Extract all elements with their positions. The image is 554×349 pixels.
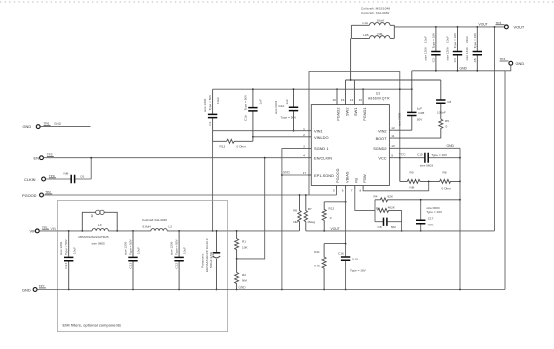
svg-text:10uF: 10uF <box>137 247 141 254</box>
svg-text:15: 15 <box>341 98 345 102</box>
svg-text:C5: C5 <box>473 58 477 62</box>
svg-text:NM: NM <box>391 225 396 229</box>
svg-text:SGND 1: SGND 1 <box>314 146 329 151</box>
svg-text:GND: GND <box>283 171 291 175</box>
svg-text:GND: GND <box>460 67 468 71</box>
svg-text:C3: C3 <box>431 58 435 62</box>
wire VOUT right riser <box>494 27 496 231</box>
wire VOUT bottom rail <box>306 230 495 232</box>
svg-text:FB: FB <box>353 178 358 183</box>
resistor R7 <box>304 194 315 231</box>
svg-text:VIN2: VIN2 <box>378 128 387 133</box>
capacitor C8 boot <box>436 80 451 119</box>
svg-text:Type = 50V: Type = 50V <box>64 238 68 255</box>
svg-text:VOUT: VOUT <box>479 23 488 27</box>
wire PGND2 riser <box>336 89 338 104</box>
svg-text:5: 5 <box>333 188 335 192</box>
svg-text:10uF: 10uF <box>445 36 449 43</box>
svg-text:Type = 16V: Type = 16V <box>453 32 457 49</box>
svg-text:NM: NM <box>410 186 415 190</box>
resistor R13 <box>213 131 253 149</box>
svg-text:size 1210: size 1210 <box>465 47 469 61</box>
test point TP6 GND <box>23 122 91 130</box>
svg-text:size 0805: size 0805 <box>92 241 106 245</box>
test point TP2 PGOOD <box>22 190 52 198</box>
svg-text:size 1206: size 1206 <box>59 241 63 255</box>
capacitor C4 <box>445 26 462 72</box>
svg-text:EN/CLKIN: EN/CLKIN <box>314 155 332 160</box>
inductor L1B <box>351 25 394 38</box>
svg-text:C2B: C2B <box>418 111 424 115</box>
svg-text:NM: NM <box>242 279 247 283</box>
wire FSW to R8/R9 junction <box>363 181 429 190</box>
capacitor C6 <box>46 172 91 184</box>
test point TP9 CLKIN <box>24 174 56 182</box>
svg-text:PGND1: PGND1 <box>362 108 367 121</box>
capacitor C1b <box>244 88 263 141</box>
svg-text:11: 11 <box>391 134 394 138</box>
op-amp U1 regulator IC box <box>311 92 390 186</box>
svg-text:NM: NM <box>293 220 298 224</box>
resistor R12 <box>322 201 346 232</box>
svg-text:C6: C6 <box>80 175 84 179</box>
svg-text:12: 12 <box>391 126 395 130</box>
svg-text:n.m.: n.m. <box>314 264 320 268</box>
svg-text:17: 17 <box>303 171 307 175</box>
svg-text:EP1-SGND: EP1-SGND <box>314 173 334 178</box>
svg-text:R2: R2 <box>242 273 246 277</box>
svg-text:Type = 50V: Type = 50V <box>174 238 178 255</box>
svg-text:PGND2: PGND2 <box>336 108 341 121</box>
svg-text:R11: R11 <box>314 250 320 254</box>
svg-text:VOUT: VOUT <box>331 227 340 231</box>
svg-text:50V: 50V <box>417 117 423 121</box>
wire VCC drop <box>399 158 401 182</box>
svg-text:82K: 82K <box>388 195 394 199</box>
capacitor C1 <box>203 89 220 131</box>
wire EN divider jog <box>237 158 265 259</box>
capacitor C2B <box>398 71 425 130</box>
svg-text:1Meg: 1Meg <box>307 220 315 224</box>
svg-text:R12: R12 <box>329 206 335 210</box>
svg-text:A8660KQTR: A8660KQTR <box>368 97 390 101</box>
svg-text:2: 2 <box>303 133 305 137</box>
svg-text:10uF: 10uF <box>424 36 428 43</box>
page border top <box>0 1 554 3</box>
capacitor C14 <box>59 230 76 290</box>
resistor R11 <box>314 243 346 291</box>
svg-text:9: 9 <box>391 153 393 157</box>
svg-text:PGOOD: PGOOD <box>335 168 340 183</box>
svg-text:0: 0 <box>330 216 332 220</box>
svg-text:VCC: VCC <box>378 155 386 160</box>
wire SW node to L1 <box>350 38 352 80</box>
svg-text:size 1206: size 1206 <box>445 47 449 61</box>
test point TP7 GND bottom <box>22 284 46 292</box>
wire PGND loop <box>309 72 400 196</box>
svg-text:C17: C17 <box>428 217 434 221</box>
svg-text:GND: GND <box>54 122 62 126</box>
test point TP1 VIN <box>30 225 57 233</box>
wire FB branch vertical <box>374 200 376 222</box>
svg-text:402K: 402K <box>388 206 396 210</box>
resistor R8 <box>429 171 461 191</box>
svg-text:BOOT: BOOT <box>376 136 388 141</box>
wire VBIAS vertical <box>345 189 347 257</box>
capacitor C5 <box>465 26 482 72</box>
svg-text:0: 0 <box>446 124 448 128</box>
wire PGND1 riser <box>362 89 364 104</box>
svg-text:FSW: FSW <box>362 174 367 183</box>
svg-text:C1b: C1b <box>244 115 248 121</box>
svg-text:6: 6 <box>342 188 344 192</box>
svg-text:C14: C14 <box>64 263 68 269</box>
resistor R9 <box>400 171 429 190</box>
svg-text:Type = 16V: Type = 16V <box>350 268 367 272</box>
svg-text:CLKIN: CLKIN <box>24 177 36 182</box>
wire SGND1 <box>282 149 308 290</box>
svg-text:3: 3 <box>303 145 305 149</box>
wire GND drop to bottom rail <box>504 71 506 290</box>
wire SGND2 to GND <box>393 147 460 149</box>
svg-text:Type = 50V: Type = 50V <box>128 238 132 255</box>
capacitor C8 feedback <box>375 218 402 229</box>
resistor R4 <box>374 195 461 202</box>
svg-text:Coilcraft XAL4030: Coilcraft XAL4030 <box>142 218 167 222</box>
svg-text:GND: GND <box>22 287 31 292</box>
svg-text:VBIAS: VBIAS <box>344 171 349 183</box>
svg-text:n.m.: n.m. <box>428 223 434 227</box>
svg-text:C11: C11 <box>211 252 215 258</box>
svg-text:22uF: 22uF <box>465 36 469 43</box>
wire EP1-SGND with GND label <box>282 174 308 176</box>
svg-text:L1A: L1A <box>363 21 369 25</box>
EMI filter box <box>57 201 227 332</box>
wire CLKIN riser to EN <box>90 158 92 179</box>
capacitor C17 <box>416 199 443 232</box>
svg-text:size 1206: size 1206 <box>123 241 127 255</box>
svg-text:SW2: SW2 <box>344 108 349 116</box>
svg-text:C12: C12 <box>174 263 178 269</box>
capacitor C15 <box>393 152 461 167</box>
svg-text:C8: C8 <box>378 225 382 229</box>
svg-text:VCC: VCC <box>399 153 406 157</box>
svg-text:7: 7 <box>351 188 353 192</box>
svg-text:Type = 50V: Type = 50V <box>281 115 298 119</box>
svg-text:10: 10 <box>391 144 395 148</box>
svg-text:GND: GND <box>239 286 247 290</box>
svg-text:C16: C16 <box>338 252 344 256</box>
svg-text:C1: C1 <box>208 121 212 125</box>
svg-text:GND: GND <box>23 124 32 129</box>
wire VIN bottom rail <box>39 230 299 232</box>
svg-text:R3: R3 <box>376 206 380 210</box>
svg-text:SGND2: SGND2 <box>373 146 386 151</box>
svg-text:R1: R1 <box>242 240 246 244</box>
svg-text:Coilcraft: XAL4030: Coilcraft: XAL4030 <box>361 11 389 15</box>
svg-text:VIN: VIN <box>51 227 57 231</box>
capacitor C11 electrolytic <box>201 230 221 290</box>
svg-text:SW1: SW1 <box>353 108 358 116</box>
capacitor C3 <box>424 26 441 72</box>
wire SW1 pin riser <box>353 80 355 105</box>
wire VIN2 pin <box>393 129 412 131</box>
svg-text:size 1206: size 1206 <box>424 47 428 61</box>
jumper J2 <box>81 210 118 232</box>
svg-text:1: 1 <box>303 127 305 131</box>
wire VIN rail to VIN1 <box>213 130 308 132</box>
test point TP3 <box>496 21 525 30</box>
inductor L1A <box>351 19 394 26</box>
svg-text:n.m.: n.m. <box>352 257 358 261</box>
svg-text:R5: R5 <box>445 119 449 123</box>
svg-text:U1: U1 <box>376 92 380 96</box>
svg-text:VIN1: VIN1 <box>314 128 323 133</box>
svg-text:Type = 16V: Type = 16V <box>473 32 477 49</box>
capacitor C12 <box>170 230 187 290</box>
resistor R2 <box>235 259 248 291</box>
ferrite bead L3 <box>79 223 109 245</box>
resistor R1 <box>235 230 249 259</box>
svg-text:10K: 10K <box>242 246 248 250</box>
svg-text:Type = 16V: Type = 16V <box>431 153 448 157</box>
capacitor C2A <box>274 88 298 131</box>
svg-text:16: 16 <box>332 98 336 102</box>
wire EN net <box>44 157 308 159</box>
svg-text:PGOOD: PGOOD <box>22 193 37 198</box>
test point TP5 EN <box>34 153 54 161</box>
svg-text:Type = 50V: Type = 50V <box>244 94 248 111</box>
wire PGOOD net <box>44 189 337 195</box>
resistor R6 <box>293 194 301 231</box>
svg-text:R6: R6 <box>293 209 297 213</box>
svg-text:size 1206: size 1206 <box>170 241 174 255</box>
svg-text:6.8uH: 6.8uH <box>143 225 151 229</box>
svg-text:L1B: L1B <box>363 33 369 37</box>
wire SW node horizontal <box>346 79 441 81</box>
svg-text:10uF: 10uF <box>183 247 187 254</box>
svg-text:C4: C4 <box>453 58 457 62</box>
test point TP4 <box>500 57 525 66</box>
wire GND right vertical <box>459 148 461 289</box>
svg-text:EMI filters, optional componen: EMI filters, optional components <box>63 323 122 328</box>
svg-text:0 Ohm: 0 Ohm <box>442 187 452 191</box>
svg-text:L2: L2 <box>169 225 173 229</box>
svg-text:C13: C13 <box>128 263 132 269</box>
svg-text:Coilcraft: MSS1048: Coilcraft: MSS1048 <box>361 7 390 11</box>
svg-text:Type = 50V: Type = 50V <box>208 94 212 111</box>
inductor L2 <box>142 218 172 231</box>
svg-text:R7: R7 <box>308 207 312 211</box>
svg-text:size 0603: size 0603 <box>420 164 434 168</box>
svg-text:NM: NM <box>64 172 69 176</box>
svg-text:100nF: 100nF <box>437 110 446 114</box>
resistor R3 <box>376 206 403 232</box>
svg-text:EN: EN <box>34 156 40 161</box>
svg-text:1uF: 1uF <box>285 99 289 104</box>
wire VINLDO <box>253 136 308 138</box>
svg-text:R13: R13 <box>220 144 226 148</box>
wire L1 to VOUT rail <box>394 26 504 28</box>
svg-text:size 1206: size 1206 <box>203 98 207 112</box>
capacitor C16 <box>338 252 367 291</box>
svg-text:0 Ohm: 0 Ohm <box>237 144 247 148</box>
svg-text:14: 14 <box>350 98 354 102</box>
resistor R5 <box>439 119 449 138</box>
svg-text:R9: R9 <box>410 171 414 175</box>
wire bottom GND rail <box>37 289 505 291</box>
svg-text:VOUT: VOUT <box>514 25 525 30</box>
svg-text:C8: C8 <box>447 100 451 104</box>
svg-text:4: 4 <box>303 154 305 158</box>
svg-text:L3: L3 <box>98 223 102 227</box>
IC pin stubs bottom <box>337 186 364 190</box>
svg-text:GND: GND <box>447 144 455 148</box>
wire VIN riser to bottom rail <box>212 141 214 231</box>
capacitor C13 <box>123 230 140 290</box>
svg-text:size 0805: size 0805 <box>398 112 402 126</box>
svg-text:10uF: 10uF <box>216 97 220 104</box>
svg-text:MPZ2012S221ATD25: MPZ2012S221ATD25 <box>79 235 109 239</box>
svg-text:10uH: 10uH <box>377 19 384 23</box>
IC pin stubs right <box>389 130 393 158</box>
svg-text:13: 13 <box>358 98 362 102</box>
wire input GND rail <box>213 88 412 90</box>
svg-text:NM: NM <box>378 32 383 36</box>
wire FB node <box>355 189 375 210</box>
svg-text:8: 8 <box>360 188 362 192</box>
svg-text:Type = 16V: Type = 16V <box>431 32 435 49</box>
svg-text:10uF: 10uF <box>72 247 76 254</box>
svg-text:Type = 16V: Type = 16V <box>426 210 443 214</box>
wire SW2 pin riser <box>345 80 347 105</box>
svg-text:R4: R4 <box>374 195 378 199</box>
svg-text:C15: C15 <box>417 152 423 156</box>
svg-text:1uF: 1uF <box>417 106 422 110</box>
wire BOOT pin <box>393 137 441 139</box>
svg-text:J2: J2 <box>90 214 94 218</box>
wire output GND rail <box>412 70 505 72</box>
svg-text:R8: R8 <box>443 171 447 175</box>
svg-text:GND: GND <box>516 61 525 66</box>
wire TP4 to GND rail <box>505 65 511 70</box>
IC pin stubs left <box>308 131 311 175</box>
svg-text:1uF: 1uF <box>259 99 263 104</box>
svg-text:VINLDO: VINLDO <box>314 135 329 140</box>
